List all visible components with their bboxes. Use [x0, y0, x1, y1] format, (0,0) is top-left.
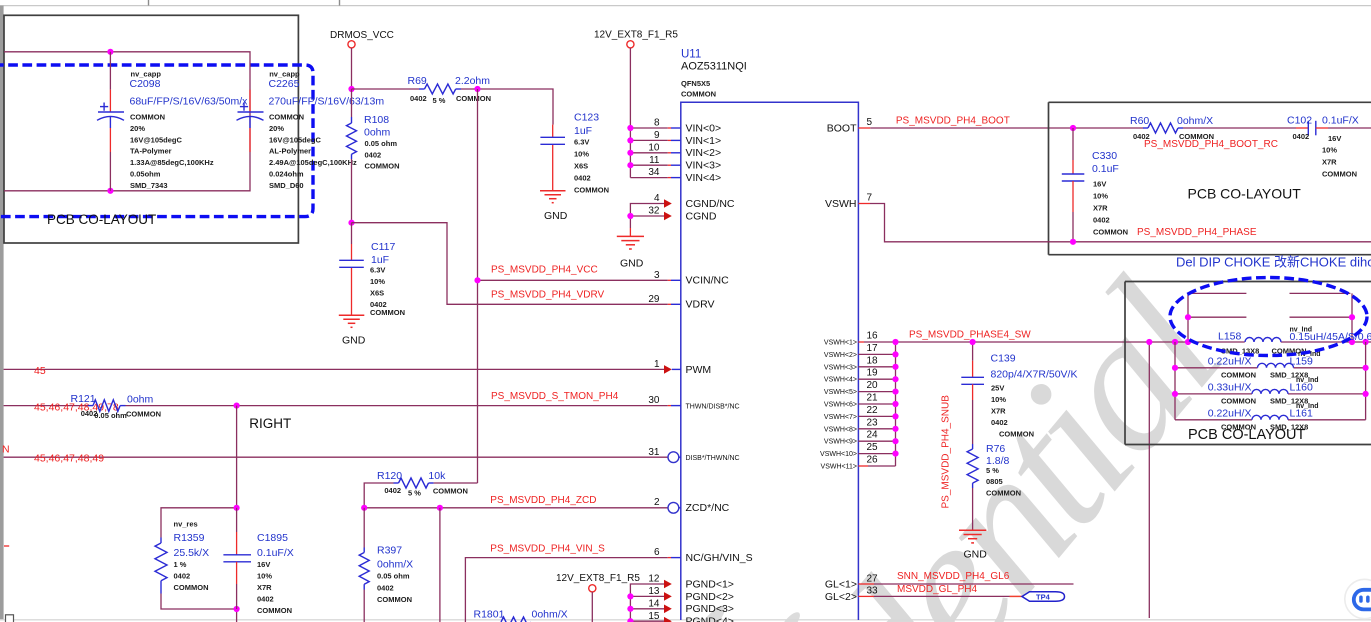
svg-text:VIN<2>: VIN<2> [686, 147, 722, 159]
svg-text:16V@105degC: 16V@105degC [130, 135, 183, 144]
svg-text:R1801: R1801 [474, 609, 505, 621]
svg-text:ZCD*/NC: ZCD*/NC [686, 502, 730, 514]
svg-text:SMD_12X8: SMD_12X8 [1270, 423, 1308, 432]
svg-text:0.05ohm: 0.05ohm [130, 170, 161, 179]
ground below C123 [540, 191, 566, 203]
svg-text:GL<1>: GL<1> [825, 578, 857, 590]
svg-text:0.33uH/X: 0.33uH/X [1208, 382, 1252, 394]
node junctions choke rails [1172, 314, 1369, 345]
svg-text:0.22uH/X: 0.22uH/X [1208, 356, 1252, 368]
svg-text:Confidential: Confidential [526, 246, 1260, 622]
svg-text:8: 8 [654, 118, 660, 129]
browser widget icon [1345, 579, 1371, 618]
svg-text:5: 5 [867, 117, 873, 128]
wire row L160 [1175, 393, 1252, 395]
value labels R121 [71, 393, 162, 420]
svg-text:VSWH<4>: VSWH<4> [824, 377, 857, 384]
value labels R108 [364, 114, 400, 171]
svg-text:30: 30 [648, 395, 660, 406]
svg-text:COMMON: COMMON [1093, 228, 1128, 237]
svg-text:TP4: TP4 [1036, 593, 1051, 602]
svg-text:U11: U11 [681, 49, 701, 61]
node junction C139 top [970, 339, 976, 345]
svg-text:COMMON: COMMON [1322, 170, 1357, 179]
svg-text:10%: 10% [370, 277, 385, 286]
svg-text:TA-Polymer: TA-Polymer [130, 147, 172, 156]
svg-text:X7R: X7R [1322, 158, 1337, 167]
svg-text:10%: 10% [1093, 192, 1108, 201]
svg-text:RIGHT: RIGHT [249, 416, 291, 431]
node junction bottom C2098 [107, 188, 113, 194]
svg-text:AL-Polymer: AL-Polymer [269, 147, 311, 156]
wire deleted choke rails [1188, 293, 1352, 342]
svg-text:9: 9 [654, 130, 660, 141]
wire top rail of cap loop [4, 52, 250, 191]
svg-text:6.3V: 6.3V [370, 266, 385, 275]
value labels C102 [1287, 115, 1359, 179]
node junction R69/vertical [474, 86, 480, 92]
svg-text:1: 1 [654, 359, 660, 370]
svg-text:nv_res: nv_res [174, 520, 198, 529]
svg-text:16: 16 [867, 331, 879, 342]
svg-text:PGND<4>: PGND<4> [686, 616, 734, 622]
svg-text:PGND<2>: PGND<2> [686, 591, 734, 603]
svg-text:20%: 20% [269, 124, 284, 133]
svg-text:0.05 ohm: 0.05 ohm [94, 411, 127, 420]
wire vertical below ZCD [439, 508, 441, 622]
pin numbers U11 right [867, 117, 879, 597]
value labels C2098 [130, 70, 249, 190]
svg-text:R1359: R1359 [174, 532, 205, 544]
test point TP4 [1022, 592, 1065, 602]
svg-text:11: 11 [649, 155, 660, 166]
svg-text:24: 24 [867, 430, 879, 441]
svg-text:COMMON: COMMON [986, 489, 1021, 498]
svg-text:PGND<3>: PGND<3> [686, 603, 734, 615]
resistor R60 [1143, 123, 1296, 133]
power DRMOS_VCC [330, 30, 394, 48]
svg-text:0.1uF: 0.1uF [1092, 163, 1119, 175]
svg-text:13: 13 [648, 586, 660, 597]
svg-text:BOOT: BOOT [827, 122, 857, 134]
pin numbers U11 left [648, 118, 660, 622]
value labels C139 [991, 353, 1078, 439]
wire inductor bus right [1365, 342, 1367, 420]
svg-text:25V: 25V [991, 384, 1004, 393]
wire net PS_MSVDD_PH4_BOOT [858, 127, 870, 129]
svg-text:1.33A@85degC,100KHz: 1.33A@85degC,100KHz [130, 158, 214, 167]
wire net PS_MSVDD_PH4_VIN_S [465, 558, 680, 622]
svg-text:7: 7 [867, 192, 873, 203]
svg-text:10%: 10% [1322, 146, 1337, 155]
resistor R108 [347, 117, 357, 159]
value labels R120 [377, 470, 468, 498]
power 12V_EXT8_F1_R5 (bottom) [556, 573, 640, 622]
node junctions row L159 [1172, 365, 1178, 371]
svg-text:0402: 0402 [365, 151, 382, 160]
wire net 45,46,47,48,49 (DISB) [4, 456, 668, 458]
svg-text:GND: GND [342, 335, 366, 347]
svg-text:C102: C102 [1287, 115, 1312, 127]
svg-text:0.1uF/X: 0.1uF/X [257, 547, 294, 559]
svg-text:34: 34 [648, 167, 660, 178]
svg-text:0805: 0805 [986, 477, 1003, 486]
svg-text:0.05 ohm: 0.05 ohm [377, 572, 410, 581]
svg-text:COMMON: COMMON [269, 113, 304, 122]
svg-text:0402: 0402 [574, 174, 591, 183]
svg-text:25: 25 [867, 442, 879, 453]
svg-text:DRMOS_VCC: DRMOS_VCC [330, 30, 394, 41]
svg-text:SMD_D60: SMD_D60 [269, 181, 304, 190]
wire row L159 [1175, 367, 1258, 369]
svg-text:L159: L159 [1290, 356, 1314, 368]
svg-text:2.49A@105degC,100KHz: 2.49A@105degC,100KHz [269, 158, 357, 167]
svg-text:GL<2>: GL<2> [825, 591, 857, 603]
wire vertical right (phase return) [1148, 342, 1150, 618]
svg-text:AOZ5311NQI: AOZ5311NQI [681, 61, 747, 73]
pin stubs VCIN and VDRV [668, 280, 681, 304]
svg-text:6.3V: 6.3V [574, 138, 589, 147]
svg-text:C1895: C1895 [257, 532, 288, 544]
svg-text:VSWH<11>: VSWH<11> [821, 464, 857, 471]
svg-text:PS_MSVDD_PH4_VIN_S: PS_MSVDD_PH4_VIN_S [490, 544, 605, 555]
svg-text:N: N [2, 444, 10, 456]
black outline box right (PCB co-layout 1) [1049, 102, 1371, 254]
svg-text:45: 45 [34, 365, 46, 377]
svg-text:16V: 16V [1328, 134, 1341, 143]
svg-text:VDRV: VDRV [686, 299, 715, 311]
svg-text:0ohm: 0ohm [127, 394, 154, 406]
svg-text:PGND<1>: PGND<1> [686, 578, 734, 590]
capacitor C1895 [223, 508, 251, 609]
svg-text:12: 12 [648, 574, 660, 585]
value labels R60 [1130, 115, 1214, 141]
svg-text:SNN_MSVDD_PH4_GL6: SNN_MSVDD_PH4_GL6 [897, 571, 1010, 582]
wire R108 junction to VDRV pin [352, 223, 668, 305]
svg-text:21: 21 [867, 393, 879, 404]
resistor R120 [364, 478, 477, 508]
svg-text:CGND/NC: CGND/NC [686, 198, 735, 210]
svg-text:PS_MSVDD_PH4_SNUB: PS_MSVDD_PH4_SNUB [941, 395, 952, 509]
svg-text:VSWH<5>: VSWH<5> [824, 389, 857, 396]
svg-text:68uF/FP/S/16V/63/50m/x: 68uF/FP/S/16V/63/50m/x [130, 96, 249, 108]
svg-text:1 %: 1 % [174, 560, 187, 569]
svg-text:3: 3 [654, 270, 660, 281]
svg-text:10%: 10% [574, 150, 589, 159]
PCB co-layout dashed outline (top-left) [0, 65, 313, 217]
svg-text:COMMON: COMMON [456, 94, 491, 103]
svg-text:0ohm/X: 0ohm/X [377, 559, 413, 571]
wire net PS_MSVDD_PH4_VCC [478, 279, 668, 281]
svg-text:PS_MSVDD_S_TMON_PH4: PS_MSVDD_S_TMON_PH4 [491, 391, 619, 402]
svg-text:29: 29 [648, 294, 660, 305]
svg-text:16V: 16V [257, 560, 270, 569]
node junctions row L160 [1172, 391, 1178, 397]
svg-text:COMMON: COMMON [574, 186, 609, 195]
svg-text:2.2ohm: 2.2ohm [455, 75, 490, 87]
svg-text:VSWH<9>: VSWH<9> [824, 439, 857, 446]
svg-text:2: 2 [654, 497, 660, 508]
node junction TMON/vertical [234, 403, 240, 409]
svg-text:nv_capp: nv_capp [269, 70, 300, 79]
svg-text:25.5k/X: 25.5k/X [174, 547, 210, 559]
svg-text:COMMON: COMMON [365, 162, 400, 171]
pin arrows PGND 12-15 [664, 580, 672, 622]
svg-text:10%: 10% [991, 395, 1006, 404]
svg-text:COMMON: COMMON [1221, 397, 1256, 406]
svg-text:COMMON: COMMON [257, 606, 292, 615]
pin arrow CGND/NC pin4 [664, 199, 672, 208]
svg-text:20: 20 [867, 380, 879, 391]
node junction C1895 bottom [234, 606, 240, 612]
capacitor C117 leads [351, 223, 353, 244]
svg-text:5 %: 5 % [408, 489, 421, 498]
value labels R1359 [174, 520, 210, 593]
value labels L158 [1218, 327, 1371, 356]
value labels C123 [574, 112, 609, 195]
op-amp/driver U11 chip outline [681, 102, 859, 620]
svg-text:0402: 0402 [991, 418, 1008, 427]
svg-text:COMMON: COMMON [433, 487, 468, 496]
wire C2265 branch leads [249, 90, 251, 112]
svg-text:VSWH<7>: VSWH<7> [824, 414, 857, 421]
svg-text:23: 23 [867, 417, 879, 428]
pin circle ZCD pin2 [668, 502, 679, 513]
svg-text:VSWH<10>: VSWH<10> [820, 451, 857, 458]
node junction R108 bottom [348, 220, 354, 226]
svg-text:16V@105degC: 16V@105degC [269, 135, 322, 144]
ground below C117 [339, 315, 365, 327]
svg-text:PS_MSVDD_PH4_VDRV: PS_MSVDD_PH4_VDRV [491, 290, 605, 301]
wire C2098 branch leads [109, 52, 111, 90]
svg-text:0402: 0402 [174, 572, 191, 581]
node junction ZCD/R397 [361, 505, 367, 511]
svg-text:COMMON: COMMON [174, 583, 209, 592]
svg-text:VSWH<2>: VSWH<2> [824, 352, 857, 359]
svg-text:COMMON: COMMON [1221, 371, 1256, 380]
svg-text:PS_MSVDD_PHASE4_SW: PS_MSVDD_PHASE4_SW [909, 329, 1031, 340]
svg-text:NC/GH/VIN_S: NC/GH/VIN_S [686, 552, 753, 564]
capacitor C139 [961, 342, 984, 444]
inductor L160 [1252, 389, 1288, 394]
svg-text:X7R: X7R [257, 583, 272, 592]
svg-text:COMMON: COMMON [377, 595, 412, 604]
wire inductor bus left [1174, 342, 1176, 420]
label U11 header [681, 49, 747, 99]
svg-text:PCB CO-LAYOUT: PCB CO-LAYOUT [1188, 186, 1302, 202]
svg-text:10%: 10% [257, 572, 272, 581]
node junctions VSWH bus [892, 339, 898, 457]
svg-text:26: 26 [867, 455, 879, 466]
svg-text:C2265: C2265 [269, 78, 300, 90]
svg-text:COMMON: COMMON [681, 90, 716, 99]
dashed ellipse choke highlight [1170, 278, 1367, 356]
svg-text:COMMON: COMMON [126, 410, 161, 419]
wire net 45,46,47,48,49,78 (TMON) [4, 405, 88, 407]
svg-text:PS_MSVDD_PH4_PHASE: PS_MSVDD_PH4_PHASE [1137, 227, 1257, 238]
svg-text:19: 19 [867, 368, 879, 379]
resistor R1359 [155, 538, 167, 594]
svg-text:0402: 0402 [410, 94, 427, 103]
value labels L160 [1208, 377, 1319, 406]
wire net 45 (PWM) [4, 368, 664, 370]
svg-text:0ohm: 0ohm [364, 127, 391, 139]
node junction SW/vertical [1146, 339, 1152, 345]
value labels L159 [1208, 351, 1321, 380]
pin names U11 left [686, 122, 753, 622]
value labels C1895 [257, 532, 294, 615]
svg-text:45,46,47,48,49: 45,46,47,48,49 [34, 453, 104, 465]
svg-text:MSVDD_GL_PH4: MSVDD_GL_PH4 [897, 584, 977, 595]
svg-text:0ohm/X: 0ohm/X [532, 609, 568, 621]
svg-text:0.1uF/X: 0.1uF/X [1322, 115, 1359, 127]
pin arrow PWM pin1 [664, 365, 672, 374]
svg-text:VSWH<6>: VSWH<6> [824, 402, 857, 409]
svg-text:VSWH<3>: VSWH<3> [824, 364, 857, 371]
svg-text:QFN5X5: QFN5X5 [681, 79, 710, 88]
pin arrow CGND pin32 [664, 212, 672, 221]
svg-text:0.05 ohm: 0.05 ohm [365, 139, 398, 148]
svg-text:R76: R76 [986, 443, 1005, 455]
svg-text:17: 17 [867, 343, 879, 354]
svg-text:COMMON: COMMON [1221, 423, 1256, 432]
svg-text:X6S: X6S [574, 162, 588, 171]
svg-text:R69: R69 [408, 75, 427, 87]
node junction C1895 top [234, 505, 240, 511]
left edge red tick [4, 545, 9, 547]
svg-text:0402: 0402 [377, 584, 394, 593]
svg-text:0.22uH/X: 0.22uH/X [1208, 408, 1252, 420]
svg-text:GND: GND [964, 549, 988, 561]
node junction CGND [627, 213, 633, 219]
svg-text:R397: R397 [377, 545, 402, 557]
ground below R76 [959, 530, 986, 543]
svg-text:0.024ohm: 0.024ohm [269, 170, 304, 179]
capacitor C123 [540, 137, 565, 144]
svg-text:VSWH: VSWH [825, 198, 857, 210]
inductor L161 [1252, 415, 1288, 420]
svg-text:16V: 16V [1093, 180, 1106, 189]
wire net PS_MSVDD_PH4_PHASE [858, 204, 1371, 242]
resistor R76 [967, 444, 978, 530]
pin names U11 right [820, 122, 857, 602]
capacitor C117 [339, 260, 364, 267]
wire VSWH pin bus [858, 342, 895, 466]
svg-text:4: 4 [654, 193, 660, 204]
svg-text:PCB CO-LAYOUT: PCB CO-LAYOUT [47, 212, 156, 227]
svg-text:VSWH<8>: VSWH<8> [824, 426, 857, 433]
inductor L158 [1245, 338, 1281, 343]
wire row L161 [1175, 419, 1252, 421]
svg-text:PS_MSVDD_PH4_ZCD: PS_MSVDD_PH4_ZCD [490, 495, 596, 506]
bottom page edge line [0, 619, 1371, 621]
wire CGND bus [630, 204, 667, 237]
svg-text:14: 14 [648, 598, 660, 609]
svg-text:VSWH<1>: VSWH<1> [824, 340, 857, 347]
svg-text:C139: C139 [991, 353, 1016, 365]
node junctions VIN bus [627, 125, 633, 168]
svg-text:R60: R60 [1130, 115, 1149, 127]
svg-text:270uF/FP/S/16V/63/13m: 270uF/FP/S/16V/63/13m [269, 96, 385, 108]
black outline box right (PCB co-layout 2) [1125, 282, 1371, 445]
value labels R76 [986, 443, 1021, 498]
svg-text:1uF: 1uF [371, 254, 389, 266]
svg-text:C330: C330 [1092, 150, 1117, 162]
svg-text:R120: R120 [377, 470, 402, 482]
svg-text:PS_MSVDD_PH4_VCC: PS_MSVDD_PH4_VCC [491, 265, 598, 276]
capacitor C102 [1296, 121, 1371, 136]
wire R108 leads [351, 89, 353, 117]
svg-text:5 %: 5 % [986, 466, 999, 475]
svg-text:PS_MSVDD_PH4_BOOT: PS_MSVDD_PH4_BOOT [896, 116, 1010, 127]
svg-text:X6S: X6S [370, 289, 384, 298]
value labels C2265 [269, 70, 385, 190]
resistor R397 [359, 508, 369, 622]
svg-text:12V_EXT8_F1_R5: 12V_EXT8_F1_R5 [556, 573, 640, 584]
value labels C117 [370, 241, 405, 317]
svg-text:10: 10 [648, 142, 660, 153]
svg-text:COMMON: COMMON [370, 308, 405, 317]
svg-text:C2098: C2098 [130, 78, 161, 90]
svg-text:VIN<3>: VIN<3> [686, 160, 722, 172]
svg-text:L161: L161 [1290, 408, 1314, 420]
svg-text:31: 31 [648, 447, 660, 458]
svg-text:10k: 10k [428, 470, 446, 482]
svg-text:COMMON: COMMON [130, 113, 165, 122]
svg-text:PS_MSVDD_PH4_BOOT_RC: PS_MSVDD_PH4_BOOT_RC [1144, 139, 1278, 150]
node junctions PGND bus [627, 593, 633, 622]
svg-text:22: 22 [867, 405, 879, 416]
wire to R69 [352, 88, 420, 90]
wire vertical feed to R120 [477, 89, 479, 483]
svg-text:5 %: 5 % [433, 96, 446, 105]
svg-text:DISB*/THWN/NC: DISB*/THWN/NC [686, 455, 740, 462]
svg-text:C123: C123 [574, 112, 599, 124]
svg-text:THWN/DISB*/NC: THWN/DISB*/NC [686, 403, 740, 410]
wire VIN pin stubs [630, 128, 680, 178]
svg-text:GND: GND [544, 210, 568, 222]
power 12V_EXT8_F1_R5 (top) [594, 30, 678, 48]
value labels R397 [377, 545, 413, 605]
node junction top C2098 [107, 49, 113, 55]
svg-text:VIN<1>: VIN<1> [686, 135, 722, 147]
svg-text:0402: 0402 [1093, 216, 1110, 225]
wire R69 to C123 corner [461, 89, 553, 125]
node junction C330 top [1070, 125, 1076, 131]
svg-text:12V_EXT8_F1_R5: 12V_EXT8_F1_R5 [594, 30, 678, 41]
capacitor C2098 [97, 103, 124, 121]
svg-text:32: 32 [648, 206, 660, 217]
svg-text:GND: GND [620, 258, 644, 270]
wire DRMOS_VCC down [351, 48, 353, 89]
value labels C330 [1092, 150, 1128, 237]
wire net PS_MSVDD_PHASE4_SW [858, 341, 1371, 343]
svg-text:R121: R121 [71, 393, 96, 405]
svg-text:VIN<0>: VIN<0> [686, 122, 722, 134]
capacitor C330 [1062, 128, 1085, 242]
node junction C330 bottom [1070, 239, 1076, 245]
inductor L159 [1258, 363, 1294, 368]
svg-text:CGND: CGND [686, 210, 717, 222]
svg-text:15: 15 [648, 611, 660, 622]
top table border strip [0, 5, 1371, 7]
svg-text:X7R: X7R [1093, 204, 1108, 213]
value labels L161 [1208, 403, 1319, 432]
svg-text:L160: L160 [1290, 382, 1314, 394]
svg-text:R108: R108 [364, 114, 389, 126]
svg-text:C117: C117 [371, 241, 395, 253]
black outline box top-left [4, 15, 298, 243]
